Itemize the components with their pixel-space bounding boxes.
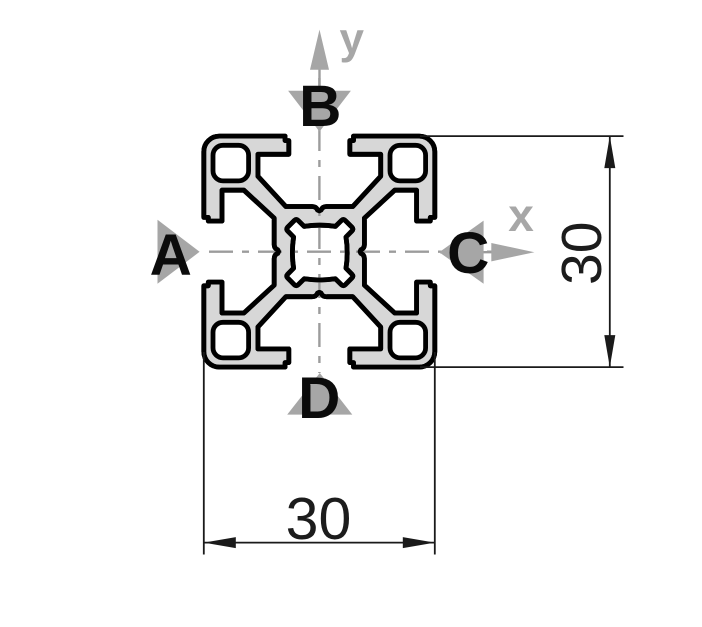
svg-text:C: C xyxy=(447,221,489,286)
dimension right: extension line top xyxy=(420,135,624,137)
centre line horizontal xyxy=(200,250,497,252)
dimension right: extension line bottom xyxy=(420,366,624,368)
restroke profile edges over centre lines xyxy=(204,136,435,367)
aluminium extrusion profile 30x30 cross-section xyxy=(204,136,435,367)
corner bore bottom-right xyxy=(390,322,426,358)
face marker triangle A xyxy=(158,220,200,284)
y axis arrow xyxy=(318,66,320,92)
face marker triangle D xyxy=(287,373,352,415)
corner bore top-right xyxy=(390,145,426,181)
dimension bottom: extension line right xyxy=(434,352,436,555)
corner bore bottom-left xyxy=(213,322,249,358)
face marker triangle C xyxy=(439,221,483,284)
svg-text:A: A xyxy=(150,223,192,288)
x axis arrow xyxy=(440,251,498,253)
dimension bottom: arrowhead left xyxy=(204,537,236,548)
center bore xyxy=(287,220,353,286)
dimension right: arrowhead top xyxy=(604,136,615,168)
svg-text:B: B xyxy=(299,74,341,139)
svg-text:30: 30 xyxy=(550,222,614,285)
svg-text:30: 30 xyxy=(286,486,352,552)
dimension bottom: extension line left xyxy=(203,352,205,555)
svg-text:D: D xyxy=(298,366,340,431)
dimension bottom: dimension line xyxy=(204,542,435,544)
svg-text:y: y xyxy=(340,15,365,64)
dimension right: dimension line xyxy=(609,136,611,367)
svg-text:x: x xyxy=(508,189,534,241)
corner bore top-left xyxy=(213,145,249,181)
dimension bottom: arrowhead right xyxy=(403,537,435,548)
face marker triangle B xyxy=(288,91,351,132)
dimension right: arrowhead bottom xyxy=(604,335,615,367)
centre line vertical xyxy=(318,66,320,373)
